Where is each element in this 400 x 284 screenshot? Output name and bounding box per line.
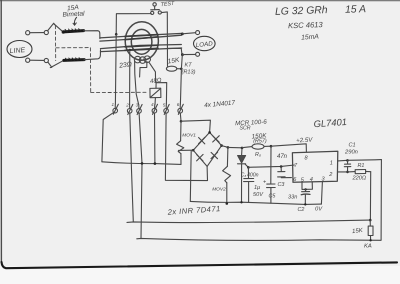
svg-text:R₀: R₀ [255, 152, 262, 158]
gate node wire to pin7 [247, 165, 294, 169]
resistor 15K (KA) [368, 220, 373, 241]
MOV1 varistor [177, 121, 184, 164]
svg-text:C1: C1 [349, 143, 356, 149]
svg-text:R1: R1 [358, 163, 365, 169]
svg-text:1μ: 1μ [254, 185, 260, 191]
IC U1 GL7401 box [292, 151, 337, 182]
svg-text:0V: 0V [315, 207, 323, 213]
svg-text:4: 4 [151, 102, 154, 107]
label R1 220Ω [352, 163, 367, 182]
SCR MCR100-6 [238, 148, 249, 204]
label 33n C2 0V [288, 195, 323, 214]
svg-text:6: 6 [177, 102, 180, 107]
bridge rectifier diamond [192, 131, 223, 166]
+2.5V supply wire to pin 8 [271, 144, 306, 152]
contact 1 [113, 35, 118, 115]
capacitor C5 electrolytic [267, 146, 276, 203]
svg-text:400n: 400n [247, 173, 259, 179]
IC pin numbers [293, 156, 333, 184]
capacitor C3 400n [244, 168, 254, 203]
mechanical link dashed lines [55, 26, 146, 93]
svg-text:C3: C3 [278, 182, 285, 188]
svg-text:220Ω: 220Ω [352, 176, 367, 182]
primary wire upper pair through core [100, 33, 196, 42]
label KT (R13) [182, 63, 196, 76]
LINE terminal lower (plug circles and lead) [26, 58, 49, 63]
pin 2 wire [338, 171, 356, 173]
pin 5/4 bar and capacitor C2 [301, 182, 312, 206]
svg-text:47n: 47n [277, 154, 288, 160]
label 15A Bimetal with arrow [62, 4, 85, 25]
svg-text:5: 5 [163, 102, 166, 107]
wire contact5 down and over to bridge bottom [165, 113, 207, 181]
svg-text:SCR: SCR [240, 125, 251, 131]
winding lead right [140, 61, 156, 82]
svg-text:MOV1: MOV1 [182, 133, 196, 139]
test button S TEST [151, 3, 162, 15]
wire bridge right corner to SCR node [222, 146, 244, 150]
svg-text:KSC 4613: KSC 4613 [288, 20, 324, 30]
svg-text:C2: C2 [298, 207, 305, 213]
bridge diode D1 [199, 137, 205, 144]
pin 3 lead to 0V [321, 182, 322, 205]
svg-text:C5: C5 [269, 194, 277, 200]
bridge diode D4 [211, 152, 218, 159]
wire contact2 down to bottom rail A [130, 113, 134, 222]
LOAD terminal circles [196, 31, 200, 57]
wire LOAD branch down to contact 6 [180, 55, 182, 104]
LOAD connector oval [194, 36, 216, 50]
svg-text:KT: KT [185, 63, 193, 69]
wire MOV node to bridge top [181, 120, 210, 132]
wire R1 down to 15K node [369, 172, 372, 222]
relay coil 48Ω [150, 83, 167, 105]
contact 3 [137, 105, 142, 115]
bottom rail A (to 15K node) [127, 220, 370, 222]
wire contact4 down to horizontal bus [154, 113, 156, 163]
svg-text:50V: 50V [253, 192, 264, 198]
contact 4 [152, 104, 157, 114]
current transformer toroid core [125, 22, 158, 60]
wire: S TEST left contact to mains tap [115, 13, 151, 35]
resistor 15K (test) [166, 66, 182, 71]
label C3 400n [241, 173, 259, 179]
svg-text:LOAD: LOAD [196, 41, 214, 49]
svg-text:15 A: 15 A [345, 4, 366, 16]
svg-text:+: + [263, 180, 266, 186]
horizontal bus wire y163 [102, 162, 181, 165]
CT secondary winding loops [134, 56, 150, 63]
capacitor C1 [344, 161, 351, 174]
svg-text:(R13): (R13) [182, 70, 196, 76]
svg-text:4: 4 [310, 177, 313, 183]
contact numbers 1-6 [112, 102, 180, 107]
svg-text:C₃: C₃ [241, 173, 247, 179]
svg-text:KA: KA [364, 244, 372, 250]
svg-text:Bimetal: Bimetal [62, 10, 85, 18]
pin 1 wire and node [338, 159, 382, 162]
label MCR 100-6 SCR [235, 119, 268, 132]
contact 2 [127, 104, 132, 114]
label 1u 50V C5 [253, 180, 276, 200]
wire contact1 down-left to bus [102, 112, 114, 161]
bottom rail B (outer) [137, 238, 381, 240]
bridge left corner stub [178, 149, 193, 151]
svg-text:2: 2 [125, 102, 129, 107]
resistor R1 220Ω [355, 170, 371, 174]
svg-text:15K: 15K [352, 228, 364, 235]
MOV2 varistor [223, 148, 231, 205]
svg-text:15mA: 15mA [301, 33, 320, 41]
svg-text:1: 1 [330, 161, 333, 167]
left scan border [0, 0, 2, 262]
switch pole lower: blade and bimetal contact [48, 50, 101, 68]
switch pole upper: blade and bimetal contact [48, 23, 100, 38]
winding lead left [135, 61, 139, 104]
label C1 290n [344, 143, 358, 156]
svg-text:3: 3 [136, 102, 139, 107]
svg-text:LG 32 GRh: LG 32 GRh [275, 5, 328, 18]
svg-text:LINE: LINE [9, 47, 25, 55]
top scan border [0, 0, 400, 2]
contact 6 [178, 104, 183, 114]
wire contact2 tap from lower mains [129, 49, 131, 105]
svg-text:(R57): (R57) [253, 138, 267, 144]
resistor R0 [242, 144, 272, 149]
LINE terminal upper (plug circles and lead) [26, 30, 49, 34]
primary wires emphasis inside core [125, 35, 158, 51]
svg-text:+2.5V: +2.5V [296, 136, 314, 144]
contact 5 [164, 104, 169, 114]
wire contact6 down to MOV1 node [180, 113, 183, 123]
bridge diode D3 [197, 154, 204, 161]
capacitor C3 47n (pin7-pin6) [278, 167, 292, 178]
primary wire lower pair through core [101, 45, 196, 57]
bottom scan border [2, 262, 398, 268]
svg-text:290n: 290n [344, 150, 358, 156]
svg-text:48Ω: 48Ω [150, 77, 163, 85]
LINE connector oval [7, 41, 32, 58]
wire contact3 down to bottom rail B [139, 113, 142, 238]
wire: S TEST right contact down to 15K test resistor [161, 12, 167, 66]
label 150K (R57) [251, 132, 267, 144]
svg-text:GL7401: GL7401 [313, 116, 347, 129]
bridge diode D2 [213, 136, 220, 142]
title LG 32 GRh 15A [275, 4, 366, 18]
0V rail from bridge left corner [190, 150, 321, 204]
svg-text:MOV2: MOV2 [212, 187, 226, 193]
right outer wire pin1 net down [380, 160, 382, 241]
svg-text:1: 1 [112, 102, 115, 107]
svg-text:33n: 33n [288, 195, 297, 201]
label 47n C3 [277, 154, 288, 188]
bridge bottom lead [206, 166, 208, 180]
